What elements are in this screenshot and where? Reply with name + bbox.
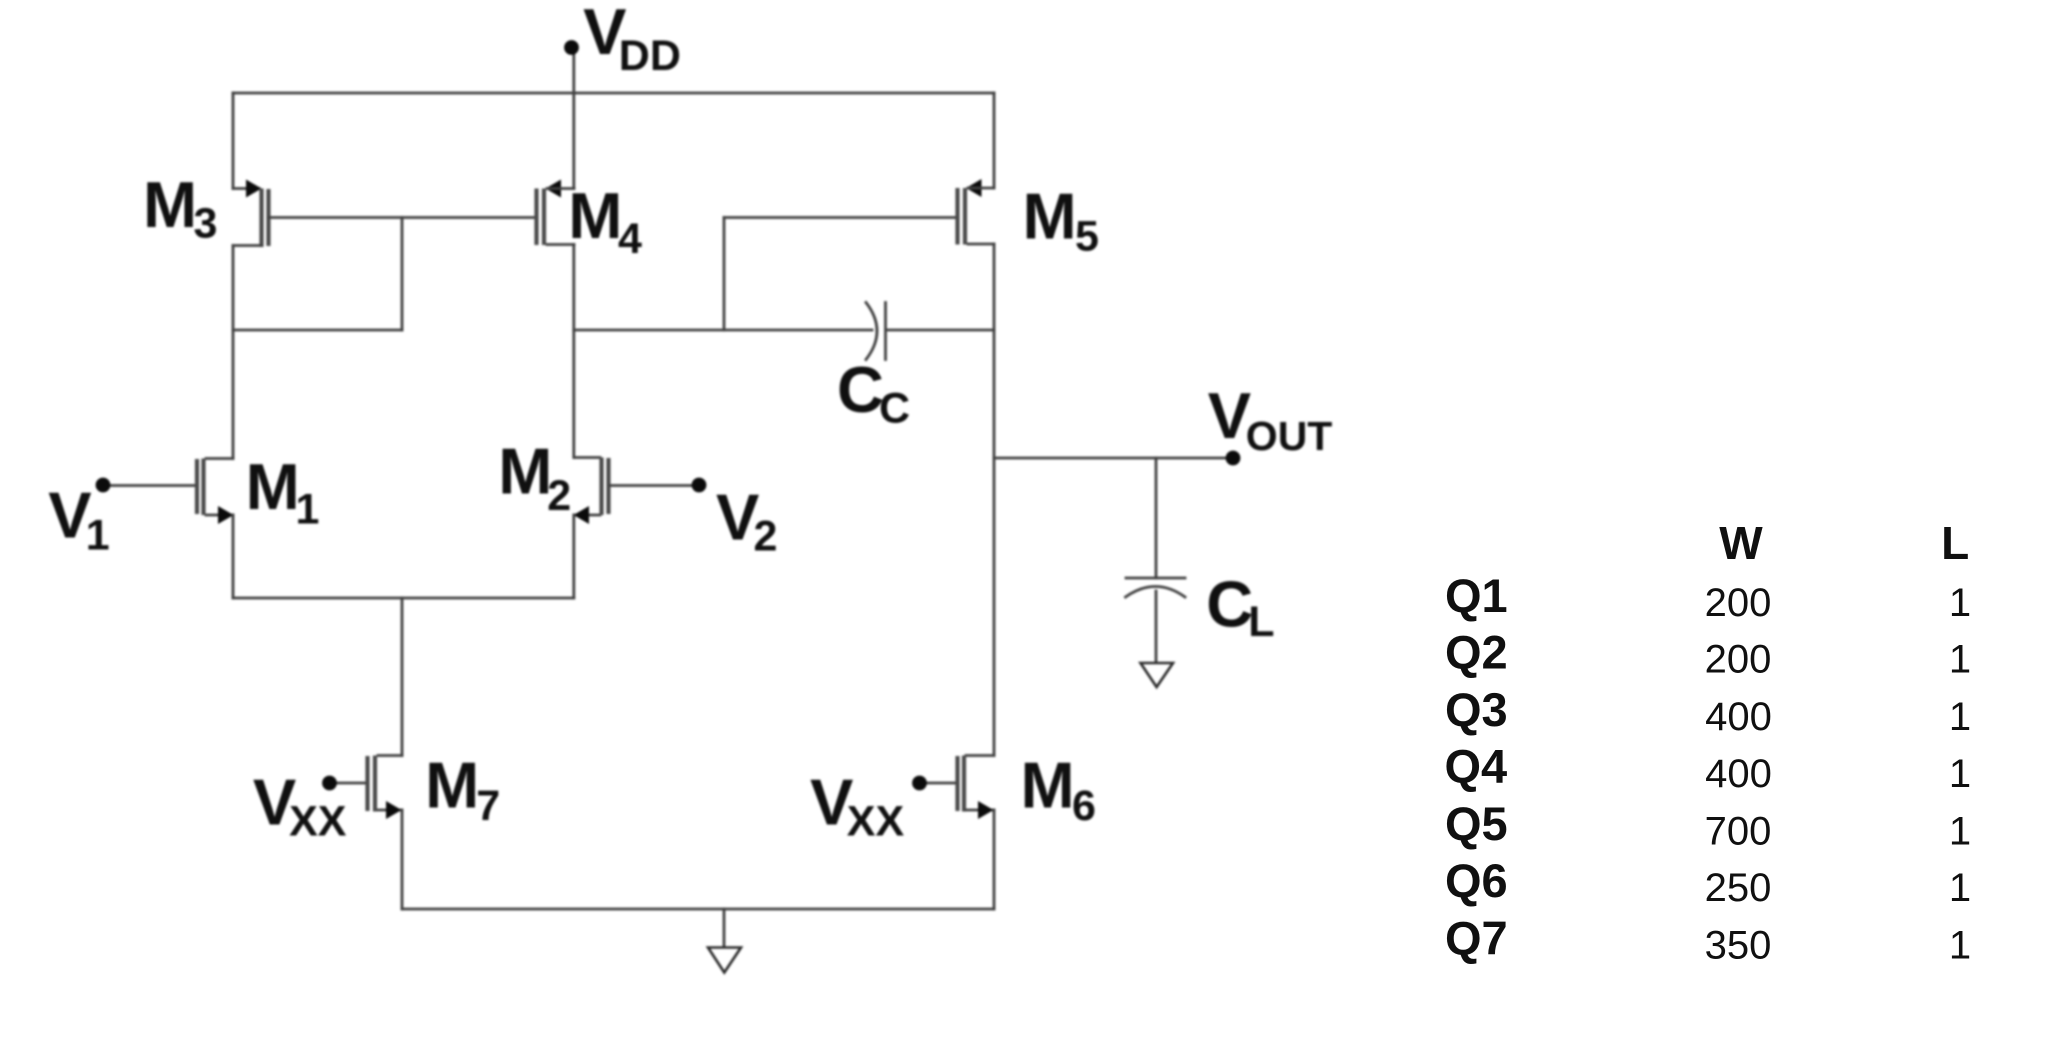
label CL [1206, 567, 1274, 646]
svg-text:L: L [1941, 517, 1969, 569]
svg-text:350: 350 [1705, 924, 1772, 968]
wire CL drop [1155, 458, 1158, 578]
svg-text:250: 250 [1705, 866, 1772, 910]
svg-text:200: 200 [1705, 581, 1772, 625]
svg-text:Q4: Q4 [1445, 740, 1508, 793]
svg-text:M: M [1023, 180, 1077, 253]
svg-text:1: 1 [1949, 924, 1971, 968]
svg-text:DD: DD [619, 32, 681, 80]
transistor M1 [103, 459, 234, 525]
label M1 [246, 450, 320, 533]
svg-text:1: 1 [1949, 752, 1971, 796]
wire ground stub [723, 909, 726, 947]
svg-text:M: M [568, 179, 622, 252]
wire tail drop to M7 [401, 598, 404, 756]
svg-text:1: 1 [1949, 695, 1971, 739]
transistor M2 [574, 458, 700, 525]
svg-text:Q5: Q5 [1445, 797, 1508, 850]
wire M1 source vertical [232, 515, 235, 598]
svg-text:6: 6 [1072, 782, 1096, 830]
svg-text:C: C [879, 385, 910, 433]
table header W [1719, 517, 1763, 569]
svg-text:1: 1 [1949, 638, 1971, 682]
wire mirror gate drop [401, 218, 404, 331]
table row Q7 [1445, 911, 1971, 967]
net label Vxx right [810, 765, 904, 845]
wire M3 source vertical [232, 93, 235, 189]
svg-text:Q7: Q7 [1445, 911, 1508, 964]
svg-text:Q2: Q2 [1445, 625, 1508, 678]
wire VDD top rail [233, 92, 994, 95]
capacitor CL [1126, 578, 1186, 662]
wire tail rail [233, 597, 574, 600]
table row Q5 [1445, 797, 1971, 853]
label Cc [837, 353, 910, 433]
svg-text:400: 400 [1705, 752, 1772, 796]
node V2 dot [692, 478, 707, 493]
svg-text:M: M [425, 748, 479, 821]
svg-text:1: 1 [1949, 866, 1971, 910]
svg-text:7: 7 [476, 782, 500, 830]
label M2 [498, 435, 571, 520]
svg-text:XX: XX [847, 797, 905, 845]
wire VDD stub [572, 48, 575, 93]
transistor M7 [336, 756, 402, 820]
capacitor Cc [866, 303, 994, 360]
svg-text:3: 3 [194, 199, 218, 247]
table header L [1941, 517, 1969, 569]
svg-text:M: M [143, 168, 197, 241]
node Vxx right dot [912, 776, 927, 791]
svg-text:OUT: OUT [1246, 413, 1333, 459]
svg-text:M: M [498, 435, 552, 508]
label M4 [568, 179, 642, 263]
node V1 dot [96, 478, 111, 493]
wire bottom rail [402, 908, 994, 911]
node Vxx left dot [322, 776, 337, 791]
svg-text:V: V [1208, 379, 1251, 452]
svg-text:1: 1 [1949, 581, 1971, 625]
net label VDD [583, 0, 681, 80]
svg-text:2: 2 [547, 472, 571, 520]
svg-text:700: 700 [1705, 810, 1772, 854]
wire M2 source vertical [572, 515, 575, 598]
svg-text:Q1: Q1 [1445, 569, 1508, 622]
node VOUT dot [1226, 451, 1241, 466]
table row Q4 [1445, 740, 1972, 796]
wire M5 gate drop [723, 218, 726, 331]
ground under CL [1141, 663, 1174, 687]
svg-text:200: 200 [1705, 638, 1772, 682]
net label Vxx left [253, 765, 347, 845]
net label V2 [716, 480, 777, 560]
transistor M5 [958, 179, 995, 245]
svg-text:5: 5 [1075, 213, 1099, 261]
svg-text:C: C [1206, 567, 1253, 640]
wire M5 drain / M6 drain vertical [993, 244, 996, 756]
svg-text:M: M [246, 450, 300, 523]
svg-text:1: 1 [1949, 810, 1971, 854]
label M6 [1021, 748, 1096, 830]
transistor M4 [537, 180, 575, 246]
svg-text:1: 1 [296, 486, 320, 534]
table row Q6 [1445, 854, 1971, 910]
wire M3 drain vertical down to M1 [232, 246, 235, 459]
ground bottom [708, 948, 741, 973]
wire M3-M4 gate line [269, 216, 536, 219]
wire first stage node left [574, 329, 872, 332]
svg-text:W: W [1719, 517, 1763, 569]
svg-text:1: 1 [86, 512, 110, 560]
label M7 [425, 748, 500, 830]
svg-text:C: C [837, 353, 884, 426]
wire M4 drain vertical down to M2 [572, 245, 575, 458]
svg-text:Q6: Q6 [1445, 854, 1508, 907]
svg-text:L: L [1248, 598, 1274, 646]
svg-text:400: 400 [1705, 695, 1772, 739]
node VDD dot [564, 40, 579, 55]
net label VOUT [1208, 379, 1333, 459]
table row Q1 [1445, 569, 1971, 625]
wire mirror node line [233, 329, 402, 332]
transistor M6 [926, 756, 994, 820]
svg-text:Q3: Q3 [1445, 683, 1508, 736]
svg-text:2: 2 [754, 513, 778, 561]
label M3 [143, 168, 217, 248]
wire M6 source vertical [993, 810, 996, 909]
wire M5 source vertical [993, 93, 996, 188]
wire M7 source vertical [401, 810, 404, 909]
label M5 [1023, 180, 1099, 261]
transistor M3 [233, 180, 269, 248]
net label V1 [48, 479, 109, 560]
wire M5 gate line [724, 216, 956, 219]
table row Q3 [1445, 683, 1971, 739]
svg-text:4: 4 [618, 215, 642, 263]
wire M4 source vertical [572, 93, 575, 189]
svg-text:M: M [1021, 748, 1075, 821]
table row Q2 [1445, 625, 1971, 681]
wire output node line [994, 457, 1233, 460]
svg-text:XX: XX [289, 797, 347, 845]
